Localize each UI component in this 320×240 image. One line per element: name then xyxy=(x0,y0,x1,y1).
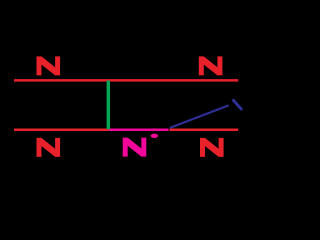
atom N4 bottom-middle (magenta) xyxy=(123,138,147,157)
bond bottom-left horizontal (red) xyxy=(14,129,109,132)
bond vertical (green) xyxy=(107,81,110,130)
atom N3 bottom-left (red) xyxy=(37,138,61,157)
radical dot on N4 (magenta) xyxy=(151,134,158,138)
bond top horizontal (red) xyxy=(14,79,238,82)
atom N1 top-left (red) xyxy=(37,56,61,75)
bond bottom-right horizontal (red) xyxy=(170,129,239,132)
bond stub right edge (blue) xyxy=(233,99,242,110)
bond diagonal (blue) xyxy=(170,105,229,128)
atom N2 top-right (red) xyxy=(199,56,223,75)
bond bottom-middle horizontal (magenta) xyxy=(109,129,169,132)
atom N5 bottom-right (red) xyxy=(200,138,224,157)
